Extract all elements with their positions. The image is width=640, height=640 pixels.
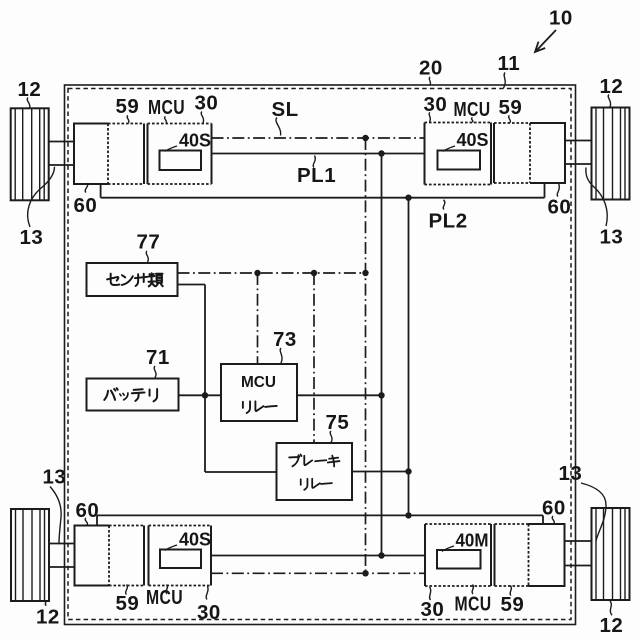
svg-text:40S: 40S [457, 130, 489, 150]
leader 59 rear-right [510, 586, 511, 596]
leader 73 [280, 348, 282, 363]
leader 60 front-right [557, 183, 559, 197]
leader 75 [330, 431, 332, 443]
leader 12 rear-left [44, 601, 47, 606]
motor 40M rear-right [437, 550, 481, 569]
svg-text:75: 75 [326, 411, 350, 434]
sensor box 77 [87, 263, 178, 296]
svg-text:40S: 40S [179, 130, 211, 150]
brake unit 59 divider front-left [107, 124, 109, 185]
leader 59 rear-left [126, 585, 128, 595]
drive unit 60 front-left [74, 124, 144, 185]
svg-text:SL: SL [272, 98, 299, 121]
leader 60 rear-left [85, 518, 87, 525]
leader 13 front-right [586, 168, 607, 227]
svg-text:60: 60 [74, 194, 98, 217]
junction sensor-MCU relay [254, 270, 260, 276]
MCU relay box 73 [221, 364, 297, 421]
power bus vertical PL2 [408, 198, 410, 516]
svg-text:59: 59 [116, 592, 140, 615]
svg-text:11: 11 [498, 52, 521, 75]
svg-text:59: 59 [501, 593, 525, 616]
axle rear-left [48, 544, 74, 568]
vehicle outer line 20 [65, 85, 576, 625]
leader 20 [429, 77, 430, 85]
junction SL front [362, 135, 368, 141]
wire PL2 drop front-right [544, 183, 546, 198]
signal branch to brake relay [313, 273, 315, 443]
axle rear-right [565, 541, 592, 566]
drive unit 60 front-right [494, 123, 565, 183]
wheel 12 front-left [11, 108, 49, 200]
leader 13 rear-right [581, 483, 606, 541]
junction PL1 rear [378, 552, 384, 558]
wire PL2 drop rear-left [96, 515, 98, 525]
svg-text:60: 60 [542, 496, 566, 519]
junction PL2 front [405, 195, 411, 201]
leader 59 front-left [127, 116, 129, 124]
junction battery rail [202, 392, 208, 398]
svg-text:13: 13 [43, 466, 67, 489]
junction MCU relay-PL1 [378, 392, 384, 398]
leader MCU rear-right [472, 585, 473, 595]
axle front-left [49, 142, 75, 166]
svg-text:12: 12 [600, 614, 624, 637]
power rail vertical [204, 285, 206, 473]
leader 60 front-left [85, 183, 88, 193]
svg-text:PL2: PL2 [429, 210, 468, 233]
drive unit 60 rear-left [75, 526, 145, 586]
signal line SL front [212, 137, 425, 139]
leader 30 front-right [429, 113, 430, 123]
MCU 30 rear-left [149, 526, 212, 586]
svg-text:60: 60 [548, 195, 572, 218]
leader 13 front-left [28, 167, 55, 227]
leader 40S front-left [165, 146, 177, 152]
leader 11 [504, 73, 506, 89]
svg-text:10: 10 [549, 7, 573, 30]
leader 30 rear-right [430, 587, 431, 601]
leader 12 front-left [27, 98, 30, 108]
svg-text:59: 59 [499, 96, 523, 119]
svg-text:MCU: MCU [241, 374, 276, 391]
battery output wire [179, 394, 222, 396]
leader 40S rear-left [165, 545, 177, 551]
MCU 30 front-right [425, 123, 492, 185]
motor 40S front-right [438, 151, 481, 170]
svg-text:13: 13 [600, 226, 624, 249]
svg-text:12: 12 [600, 75, 624, 98]
signal line SL rear [211, 572, 425, 574]
signal bus vertical SL [365, 138, 367, 573]
MCU 30 front-left [148, 124, 212, 185]
svg-text:MCU: MCU [148, 96, 185, 119]
motor 40S rear-left [160, 550, 201, 569]
text sensors (sensa-rui) in box 77 [107, 273, 163, 286]
sensor signal line [178, 272, 366, 274]
wheel 12 rear-left [11, 509, 49, 601]
svg-text:40M: 40M [456, 530, 489, 550]
leader 12 front-right [608, 95, 610, 108]
power bus vertical PL1 [381, 154, 383, 556]
junction sensor-SL bus [362, 270, 368, 276]
leader PL2 [443, 200, 445, 210]
leader 77 [146, 251, 148, 262]
leader 12 rear-right [610, 601, 612, 615]
leader 30 front-left [201, 112, 203, 123]
leader 40M rear-right [442, 546, 454, 552]
vehicle body dashed line 11 [68, 89, 571, 620]
arrow 10 [535, 30, 556, 52]
sensor power wire [178, 284, 206, 286]
svg-text:12: 12 [36, 606, 60, 629]
leader MCU front-right [472, 118, 473, 123]
svg-text:30: 30 [424, 93, 448, 116]
junction PL2 rear [405, 512, 411, 518]
power line PL2 rear [97, 514, 543, 516]
junction PL1 front [378, 150, 384, 156]
svg-text:73: 73 [273, 328, 297, 351]
power line PL2 front [101, 197, 545, 199]
svg-text:20: 20 [419, 57, 443, 80]
leader MCU front-left [165, 117, 167, 124]
svg-text:30: 30 [421, 598, 445, 621]
wire to brake relay [205, 471, 277, 473]
wheel 12 rear-right [592, 508, 630, 600]
brake unit 59 divider front-right [529, 123, 531, 183]
svg-text:40S: 40S [179, 529, 211, 549]
svg-text:13: 13 [559, 462, 583, 485]
svg-text:MCU: MCU [146, 586, 183, 609]
svg-text:MCU: MCU [455, 592, 492, 615]
motor 40S front-left [160, 151, 202, 171]
svg-text:PL1: PL1 [297, 164, 336, 187]
wire PL2 drop front-left [100, 184, 102, 198]
power line PL1 rear [211, 555, 425, 557]
text brake (bureeki) in box 75 [289, 455, 339, 467]
leader 40S front-right [443, 146, 455, 152]
leader 13 rear-left [50, 487, 61, 544]
svg-text:30: 30 [195, 91, 219, 114]
brake unit 59 divider rear-right [528, 524, 530, 586]
signal branch to MCU relay [257, 273, 259, 364]
text relay (riree) in box 75 [301, 479, 332, 490]
leader 71 [154, 366, 156, 378]
svg-text:71: 71 [146, 346, 170, 369]
leader MCU rear-left [166, 585, 167, 595]
MCU relay output wire [297, 394, 382, 396]
drive unit 60 rear-right [495, 524, 565, 586]
brake relay box 75 [277, 443, 353, 500]
power line PL1 front [212, 153, 425, 155]
junction SL rear [362, 570, 368, 576]
axle front-right [565, 141, 592, 165]
text battery (batteri) in box 71 [104, 388, 157, 401]
battery box 71 [87, 379, 179, 411]
leader 30 rear-left [206, 586, 208, 600]
brake unit 59 divider rear-left [108, 526, 110, 586]
leader SL [276, 118, 281, 136]
leader 59 front-right [509, 116, 511, 123]
leader 60 rear-right [552, 516, 554, 524]
svg-text:13: 13 [20, 226, 44, 249]
wire PL2 drop rear-right [542, 515, 544, 524]
svg-text:60: 60 [76, 499, 100, 522]
MCU 30 rear-right [425, 524, 491, 586]
svg-text:12: 12 [18, 78, 42, 101]
junction sensor-brake relay [311, 270, 317, 276]
svg-text:77: 77 [137, 231, 161, 254]
text relay (riree) in box 73 [243, 401, 277, 413]
junction brake relay-PL2 [405, 468, 411, 474]
wheel 12 front-right [592, 108, 630, 200]
leader PL1 [313, 156, 315, 168]
svg-text:59: 59 [116, 95, 140, 118]
brake relay output wire [352, 471, 409, 473]
svg-text:30: 30 [197, 601, 221, 624]
